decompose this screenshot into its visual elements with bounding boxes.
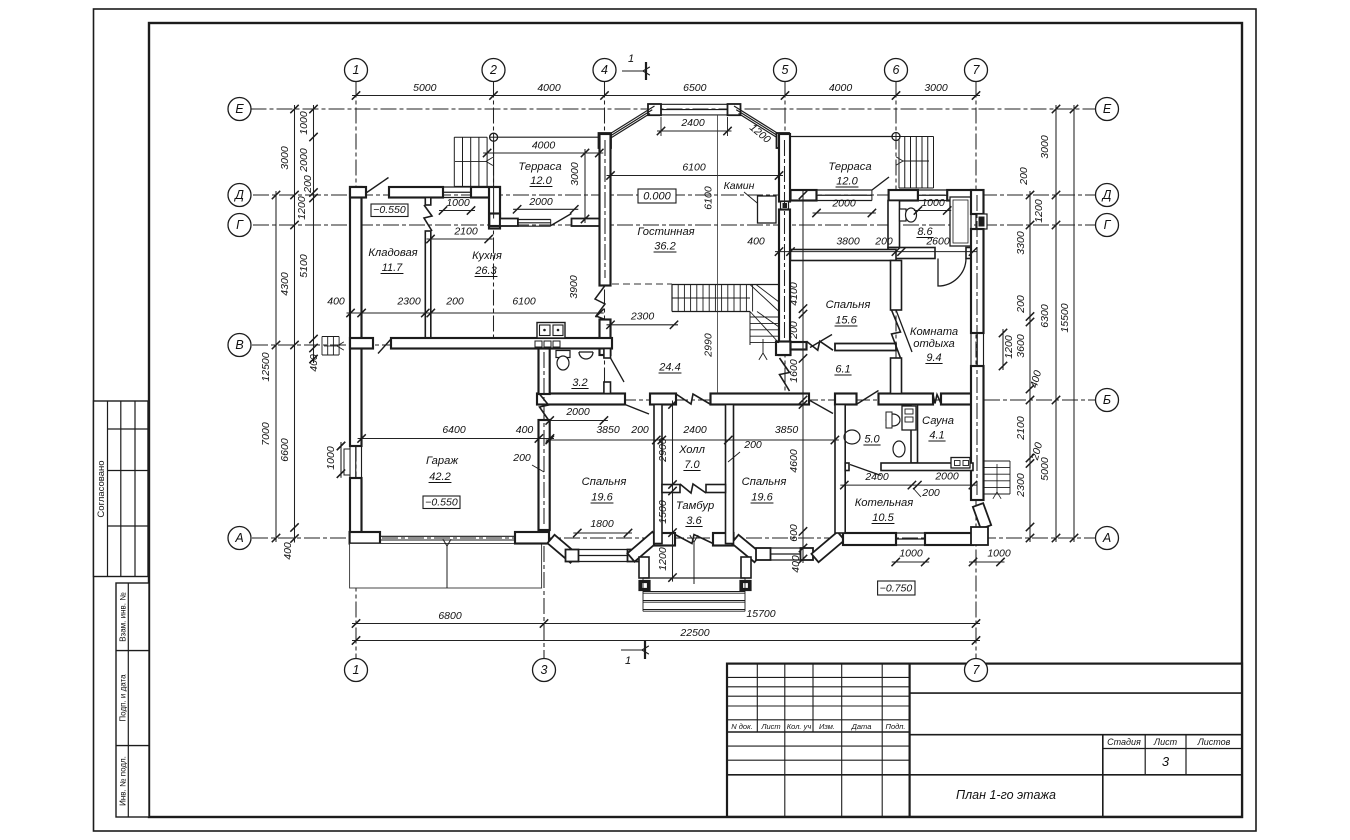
svg-text:Г: Г <box>1104 218 1112 232</box>
svg-text:9.4: 9.4 <box>926 352 941 364</box>
svg-text:А: А <box>234 531 243 545</box>
toilet 8.6 <box>900 209 907 221</box>
svg-text:4100: 4100 <box>788 282 800 306</box>
svg-text:6400: 6400 <box>442 424 466 436</box>
svg-text:6.1: 6.1 <box>835 364 850 376</box>
svg-text:3000: 3000 <box>924 82 948 94</box>
5.0 / котельная left wall <box>835 405 845 534</box>
window котельная 1000 <box>896 532 925 534</box>
window bedroom-right bay <box>771 547 801 549</box>
stairs терраса-right <box>898 137 900 189</box>
svg-text:5.0: 5.0 <box>864 434 880 446</box>
svg-text:Д: Д <box>1101 188 1112 202</box>
svg-text:200: 200 <box>1015 295 1027 314</box>
SE corner diagonal <box>973 503 991 529</box>
svg-text:2400: 2400 <box>680 117 705 129</box>
svg-text:Сауна: Сауна <box>922 415 954 427</box>
svg-text:3850: 3850 <box>596 424 620 436</box>
axis 2 top <box>482 59 505 82</box>
svg-text:200: 200 <box>302 175 314 194</box>
column symbol axis2 <box>490 133 498 141</box>
svg-text:8.6: 8.6 <box>917 226 933 238</box>
door in right wall <box>976 214 987 229</box>
svg-text:Кол. уч: Кол. уч <box>787 722 812 731</box>
svg-text:3000: 3000 <box>279 146 291 170</box>
сантехника 5.0: раковина <box>844 430 860 444</box>
dim колонка 4100/200/1600 <box>802 191 804 404</box>
svg-text:3900: 3900 <box>568 275 580 299</box>
унитаз 5.0 <box>893 441 905 457</box>
svg-text:3000: 3000 <box>569 162 581 186</box>
axis А left <box>228 527 251 550</box>
axis Б right <box>1096 389 1119 412</box>
Холл left wall <box>654 405 662 544</box>
right exterior wall axis7 <box>971 190 984 214</box>
stair winder diagonals <box>750 285 779 312</box>
svg-text:N док.: N док. <box>731 722 752 731</box>
axis 1 top <box>345 59 368 82</box>
svg-text:1000: 1000 <box>325 446 337 470</box>
Д wall right part <box>791 190 817 201</box>
svg-text:200: 200 <box>874 236 893 248</box>
window 2000 терраса-left <box>518 219 551 221</box>
svg-text:400: 400 <box>747 236 765 248</box>
svg-text:4300: 4300 <box>279 272 291 296</box>
dim 2400/2000 котельная <box>840 484 977 486</box>
биде 5.0 <box>886 414 900 426</box>
door leaf Б wall right <box>809 400 833 414</box>
svg-text:4000: 4000 <box>829 82 853 94</box>
room 8.6 left wall <box>888 201 900 248</box>
Терраса-right deck <box>791 136 897 138</box>
svg-text:0.000: 0.000 <box>643 191 671 203</box>
отметка -0.550 гараж <box>423 496 460 509</box>
bay left diagonal window <box>606 114 650 142</box>
main internal stairs <box>672 284 779 286</box>
bedroom-left SW bay diagonal 1 <box>547 535 577 563</box>
svg-text:2100: 2100 <box>453 226 478 238</box>
left window dim 1000 <box>340 442 342 478</box>
svg-text:200: 200 <box>1018 167 1030 186</box>
window dim 1200 right <box>1002 329 1004 370</box>
svg-text:19.6: 19.6 <box>591 492 613 504</box>
bay front window band <box>661 103 728 105</box>
drawing inner frame <box>149 23 1242 817</box>
кухонная мойка <box>537 323 565 339</box>
dim 2100 <box>427 238 493 240</box>
svg-text:Гараж: Гараж <box>426 455 459 467</box>
svg-text:5000: 5000 <box>413 82 437 94</box>
Кладовая/Кухня divider wall <box>425 198 431 206</box>
svg-text:400: 400 <box>516 424 534 436</box>
svg-text:7: 7 <box>973 663 981 677</box>
svg-text:2300: 2300 <box>396 296 421 308</box>
svg-text:10.5: 10.5 <box>872 512 894 524</box>
svg-text:2000: 2000 <box>934 471 959 483</box>
svg-text:200: 200 <box>512 452 531 464</box>
axis В left <box>228 334 251 357</box>
room 8.6 bottom wall <box>888 248 935 259</box>
svg-text:15.6: 15.6 <box>835 315 857 327</box>
bathtub <box>950 197 971 246</box>
axis Е right <box>1096 98 1119 121</box>
svg-text:Взам. инв. №: Взам. инв. № <box>119 592 128 642</box>
dim 2300 у лестницы <box>607 324 679 326</box>
dim 2400 эркер <box>657 130 732 132</box>
svg-text:200: 200 <box>445 296 464 308</box>
svg-text:1000: 1000 <box>446 197 470 209</box>
dim row 400/3800/200/2600 <box>775 251 977 253</box>
axis 7 bottom <box>965 659 988 682</box>
left chain 1000/2000/200/5100 <box>313 105 315 363</box>
svg-text:4600: 4600 <box>788 449 800 473</box>
svg-text:2990: 2990 <box>703 333 715 358</box>
svg-text:200: 200 <box>921 487 940 499</box>
svg-text:2400: 2400 <box>864 471 889 483</box>
svg-text:12500: 12500 <box>260 352 272 381</box>
svg-text:42.2: 42.2 <box>429 471 450 483</box>
svg-text:7000: 7000 <box>260 422 272 446</box>
Терраса-left bottom wall <box>489 214 500 227</box>
отметка -0.750 <box>878 581 915 595</box>
porch platform <box>643 577 745 579</box>
svg-text:1800: 1800 <box>590 518 614 530</box>
door arc 8.6 <box>938 259 966 287</box>
svg-text:2100: 2100 <box>1015 416 1027 441</box>
svg-text:1: 1 <box>628 53 634 65</box>
garage right wall <box>539 349 550 395</box>
svg-text:Котельная: Котельная <box>855 497 914 509</box>
svg-text:−0.550: −0.550 <box>425 497 458 509</box>
svg-text:400: 400 <box>327 296 345 308</box>
bay corner block <box>756 548 771 560</box>
svg-text:200: 200 <box>788 321 800 340</box>
axis Д right <box>1096 184 1119 207</box>
door кладовая <box>424 205 432 231</box>
svg-text:Комната: Комната <box>910 326 958 338</box>
Гостиная door double zigzag <box>595 286 605 320</box>
section mark 1 bottom <box>621 649 642 651</box>
bedroom-right bay diagonal 2 <box>811 532 844 562</box>
svg-text:1000: 1000 <box>921 197 945 209</box>
porch steps <box>643 591 745 593</box>
svg-text:Лист: Лист <box>1153 737 1178 747</box>
dim 4000 терраса-left <box>483 152 603 154</box>
bay right diagonal window <box>739 114 783 142</box>
svg-text:3600: 3600 <box>1015 334 1027 358</box>
axis 7 top <box>965 59 988 82</box>
section mark 1 top <box>622 70 643 72</box>
axis 5 top <box>774 59 797 82</box>
svg-text:6100: 6100 <box>512 296 536 308</box>
шкаф между 5.0 и сауной <box>902 406 916 430</box>
svg-text:Е: Е <box>1103 102 1112 116</box>
axis 4 top <box>593 59 616 82</box>
svg-text:3: 3 <box>541 663 548 677</box>
svg-text:1200: 1200 <box>657 547 669 571</box>
svg-text:А: А <box>1102 531 1111 545</box>
garage gate <box>380 535 515 537</box>
svg-text:6: 6 <box>893 63 900 77</box>
svg-text:Стадия: Стадия <box>1107 737 1141 747</box>
отметка 0.000 <box>638 189 676 203</box>
svg-text:2300: 2300 <box>1015 473 1027 498</box>
svg-text:1200: 1200 <box>1033 199 1045 223</box>
svg-text:15500: 15500 <box>1059 303 1071 332</box>
svg-text:Спальня: Спальня <box>826 299 871 311</box>
svg-text:200: 200 <box>743 439 762 451</box>
right chain 15500 <box>1073 105 1075 542</box>
svg-text:Терраса: Терраса <box>828 161 871 173</box>
bottom chain 22500 <box>352 640 980 642</box>
dim 2000 терраса-left окно <box>513 208 578 210</box>
axis grid dash-dot lines <box>355 82 357 659</box>
svg-text:26.3: 26.3 <box>474 265 497 277</box>
svg-text:Подп.: Подп. <box>886 722 906 731</box>
Спальня15.6 top wall <box>791 250 897 261</box>
svg-text:400: 400 <box>308 354 320 372</box>
В axis wall left part <box>350 338 373 349</box>
dim 6100 vert гостиная <box>717 115 719 394</box>
svg-text:3: 3 <box>1162 754 1170 769</box>
left chain 12500/7000 <box>275 191 277 542</box>
dim 3000 терраса-left vert <box>584 149 586 223</box>
Спальня15.6 bottom wall <box>791 342 807 350</box>
svg-text:Гостинная: Гостинная <box>637 226 694 238</box>
svg-text:6300: 6300 <box>1039 304 1051 328</box>
svg-text:2000: 2000 <box>298 148 310 173</box>
door zigzag Холл entrance <box>676 394 710 404</box>
Б axis wall segments <box>537 394 625 405</box>
door leaf комната отдыха <box>896 310 912 352</box>
door терраса-right leaf <box>872 177 889 190</box>
door leaf котельная <box>850 465 881 476</box>
svg-text:1000: 1000 <box>987 548 1011 560</box>
svg-text:4000: 4000 <box>532 140 556 152</box>
svg-text:Спальня: Спальня <box>582 476 627 488</box>
тамбур door <box>675 535 713 544</box>
axis Д left <box>228 184 251 207</box>
svg-text:В: В <box>235 338 243 352</box>
dim 1800 <box>573 532 632 534</box>
dashed beam line <box>612 283 672 285</box>
svg-text:Дата: Дата <box>851 722 872 731</box>
svg-text:1000: 1000 <box>298 111 310 135</box>
svg-text:4.1: 4.1 <box>929 430 944 442</box>
window in Д wall 1000 <box>443 186 471 188</box>
svg-text:6100: 6100 <box>703 186 715 210</box>
svg-text:−0.750: −0.750 <box>880 583 913 595</box>
svg-text:2: 2 <box>489 63 497 77</box>
title block (основная надпись) <box>727 664 1242 817</box>
dim 6100 гостиная <box>607 175 784 177</box>
dim row 400/2300/200/6100 <box>347 312 604 314</box>
svg-text:Инв. № подл.: Инв. № подл. <box>119 756 128 806</box>
svg-text:5100: 5100 <box>298 254 310 278</box>
svg-text:1600: 1600 <box>788 359 800 383</box>
отметка -0.550 кладовая <box>371 204 408 217</box>
porch columns <box>639 581 650 591</box>
bedroom-right bay diagonal 1 <box>731 535 761 562</box>
right chain 3000/1200/6300/5000 <box>1055 105 1057 542</box>
svg-text:Согласовано: Согласовано <box>96 460 107 517</box>
wall axis1 left exterior lower <box>350 478 362 544</box>
axis Г left <box>228 214 251 237</box>
zigzag opening 1600 below axis5 wall <box>780 358 790 391</box>
раковина 3.2 <box>579 352 593 359</box>
svg-text:1: 1 <box>353 63 360 77</box>
dim 1000 окно Д <box>439 210 475 212</box>
wall axis1 left exterior upper <box>350 187 362 446</box>
dim 6400/400 гараж <box>358 438 554 440</box>
svg-text:1: 1 <box>625 655 631 667</box>
svg-text:Подп. и дата: Подп. и дата <box>119 674 128 722</box>
dim 2000 окно терраса-right <box>813 212 876 214</box>
door leaf Б wall <box>625 405 649 415</box>
svg-text:Листов: Листов <box>1197 737 1231 747</box>
axis 3 bottom <box>533 659 556 682</box>
svg-text:1000: 1000 <box>899 548 923 560</box>
svg-text:Тамбур: Тамбур <box>676 500 714 512</box>
svg-text:1200: 1200 <box>296 196 308 220</box>
wall axis Д top of Кладовая <box>350 187 366 198</box>
svg-text:200: 200 <box>630 424 649 436</box>
axis Е left <box>228 98 251 121</box>
svg-text:Е: Е <box>235 102 244 116</box>
svg-text:План 1-го этажа: План 1-го этажа <box>956 788 1056 802</box>
wall axis6 between спальня и комната отдыха <box>891 261 902 311</box>
печь сауны <box>951 458 970 469</box>
svg-text:6800: 6800 <box>438 610 462 622</box>
external stair right <box>984 460 1010 462</box>
left stamp table (Взам. инв. / Подп. и дата / Инв. № подл.) <box>116 583 149 817</box>
Холл right wall <box>726 405 734 544</box>
svg-text:12.0: 12.0 <box>530 175 552 187</box>
svg-text:3.6: 3.6 <box>686 515 702 527</box>
Котельная bottom wall <box>843 533 896 545</box>
axis 6 top <box>885 59 908 82</box>
svg-text:7: 7 <box>973 63 981 77</box>
window 1000 <box>918 189 947 191</box>
svg-text:5: 5 <box>782 63 789 77</box>
svg-text:Изм.: Изм. <box>819 722 835 731</box>
стена 3.2/24.4 <box>604 349 611 359</box>
svg-text:4: 4 <box>601 63 608 77</box>
svg-text:3800: 3800 <box>836 236 860 248</box>
svg-text:6500: 6500 <box>683 82 707 94</box>
left chain 3000/4300/6600/400 <box>294 105 296 543</box>
сауна left wall <box>911 405 918 464</box>
svg-text:400: 400 <box>282 542 294 560</box>
door терраса-left leaf <box>551 214 572 226</box>
svg-text:3.2: 3.2 <box>572 377 587 389</box>
porch side walls <box>639 557 649 578</box>
window in left wall <box>349 446 351 478</box>
left approval stamp table (Согласовано) <box>94 401 149 577</box>
унитаз 3.2 <box>556 351 570 358</box>
Тамбур front wall <box>654 533 675 546</box>
title block right part <box>910 692 1242 694</box>
svg-text:Кладовая: Кладовая <box>368 247 417 259</box>
svg-text:3300: 3300 <box>1015 231 1027 255</box>
svg-text:19.6: 19.6 <box>751 492 773 504</box>
svg-text:2400: 2400 <box>682 424 707 436</box>
svg-text:22500: 22500 <box>679 627 709 639</box>
bottom chain 6800/15700 <box>352 623 980 625</box>
svg-text:2000: 2000 <box>831 198 856 210</box>
svg-text:2900: 2900 <box>657 438 669 463</box>
svg-text:6600: 6600 <box>279 438 291 462</box>
porch entry arrow <box>693 542 695 584</box>
svg-text:400: 400 <box>790 555 802 573</box>
dims 1000 внизу <box>892 561 930 563</box>
dim 1000 окно терраса-right <box>914 210 951 212</box>
svg-text:2300: 2300 <box>630 311 655 323</box>
svg-text:Камин: Камин <box>724 180 755 192</box>
right chain 1200/3300/200/3600/400/2100/200/2300 <box>1029 191 1031 542</box>
svg-text:24.4: 24.4 <box>658 362 680 374</box>
door garage <box>540 394 549 420</box>
svg-text:7.0: 7.0 <box>684 459 700 471</box>
svg-text:отдыха: отдыха <box>913 338 955 350</box>
dim row 3850/200/2400/3850 <box>546 439 839 441</box>
svg-text:1200: 1200 <box>1003 335 1015 359</box>
door leaf В wall <box>378 339 391 354</box>
axis 1 bottom <box>345 659 368 682</box>
svg-text:36.2: 36.2 <box>654 241 675 253</box>
window 2000 терраса-right <box>817 189 872 191</box>
svg-text:3000: 3000 <box>1039 135 1051 159</box>
svg-text:1: 1 <box>353 663 360 677</box>
Холл/Тамбур divider <box>662 485 680 493</box>
door leaf in Д wall <box>366 178 389 194</box>
bay corner block left <box>566 550 579 562</box>
svg-text:15700: 15700 <box>746 608 775 620</box>
Гостиная right wall axis5 <box>779 134 790 202</box>
axis Г right <box>1096 214 1119 237</box>
приборы на стене В <box>535 341 542 347</box>
Гостиная left wall axis4 <box>600 134 611 286</box>
small door in axis5 wall <box>781 202 789 210</box>
svg-text:Г: Г <box>236 218 244 232</box>
svg-text:Б: Б <box>1103 393 1111 407</box>
door leaf спальня 15.6 <box>810 335 832 348</box>
lower winder <box>749 312 751 346</box>
svg-text:6100: 6100 <box>682 162 706 174</box>
top dimension chain 5000/4000/6500/4000/3000 <box>352 95 980 97</box>
Терраса-left deck outline <box>494 136 600 138</box>
svg-text:Терраса: Терраса <box>518 161 561 173</box>
выноска 200 котельная <box>913 488 921 497</box>
Кухня NE corner wall <box>489 187 500 229</box>
title block left revision table <box>908 664 910 817</box>
svg-text:Лист: Лист <box>760 722 780 731</box>
svg-text:2000: 2000 <box>565 406 590 418</box>
svg-text:Холл: Холл <box>678 444 706 456</box>
svg-text:1500: 1500 <box>657 500 669 524</box>
door leaf 3.2 <box>611 358 625 382</box>
svg-text:Кухня: Кухня <box>472 250 502 262</box>
svg-text:Спальня: Спальня <box>742 476 787 488</box>
svg-text:3850: 3850 <box>775 424 799 436</box>
svg-text:Д: Д <box>233 188 244 202</box>
Гостиная bay: corner blocks <box>648 104 661 115</box>
bottom wall 5.0/сауна <box>845 463 849 471</box>
svg-text:−0.550: −0.550 <box>373 204 406 216</box>
dim колонка 4600/600/400 <box>802 401 804 564</box>
window 1800 bedroom-left bay <box>579 549 628 551</box>
axis А right <box>1096 527 1119 550</box>
